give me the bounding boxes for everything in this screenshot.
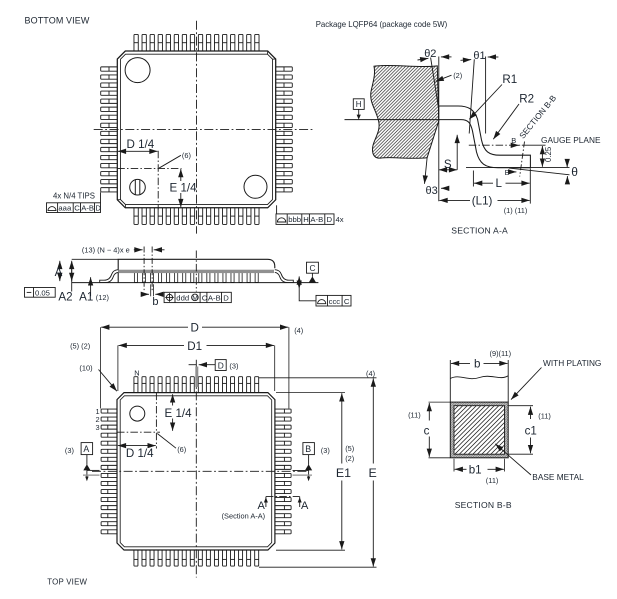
svg-text:A-B: A-B — [81, 204, 94, 213]
top view dash-dot horizontal at E/4 — [117, 431, 160, 433]
bottom view index circle top-left — [125, 58, 150, 83]
svg-text:(2): (2) — [453, 71, 462, 80]
svg-text:c1: c1 — [525, 424, 537, 437]
svg-text:c: c — [424, 424, 430, 437]
note (2) leader — [436, 75, 452, 81]
svg-text:θ1: θ1 — [473, 50, 485, 62]
svg-text:θ3: θ3 — [426, 185, 438, 197]
svg-text:WITH PLATING: WITH PLATING — [543, 358, 601, 368]
foot angle theta line — [509, 168, 570, 175]
top view dimension D — [101, 326, 188, 328]
dimension b with extension lines — [150, 284, 152, 296]
svg-text:A: A — [301, 500, 309, 512]
svg-text:A: A — [83, 444, 89, 454]
section B-B dimension b — [451, 362, 470, 364]
svg-text:ddd: ddd — [176, 293, 189, 302]
svg-text:GAUGE PLANE: GAUGE PLANE — [541, 135, 601, 145]
svg-text:SECTION B-B: SECTION B-B — [455, 500, 512, 510]
svg-text:A1: A1 — [79, 290, 93, 303]
section A-A seating plane H line — [345, 119, 439, 121]
dimension A2 — [71, 261, 73, 292]
svg-text:S: S — [444, 158, 452, 171]
svg-text:(Section A-A): (Section A-A) — [222, 512, 266, 521]
dimension L — [472, 171, 474, 187]
top view pin-1 circle — [130, 406, 145, 421]
section B-B lead shank sides — [449, 360, 451, 402]
svg-text:b: b — [474, 358, 480, 371]
svg-text:(9)(11): (9)(11) — [490, 349, 512, 358]
svg-text:(10): (10) — [79, 364, 92, 373]
top view centerline horizontal — [92, 470, 308, 472]
gauge plane dash-dot line — [469, 144, 522, 146]
svg-text:R1: R1 — [502, 73, 517, 86]
svg-text:D: D — [223, 293, 229, 302]
svg-text:(13) (N − 4)x e: (13) (N − 4)x e — [82, 246, 130, 255]
dimension A — [59, 261, 61, 267]
svg-text:E1: E1 — [336, 466, 351, 480]
svg-text:(11): (11) — [538, 412, 551, 421]
svg-text:(2): (2) — [345, 454, 354, 463]
bottom view centerline vertical — [196, 21, 198, 234]
svg-text:B: B — [511, 136, 516, 145]
datum D symbol with arrow — [189, 360, 227, 371]
svg-text:C: C — [74, 204, 80, 213]
bottom view pin row, right side — [275, 67, 292, 192]
section A-A theta1 lead flank line — [469, 59, 474, 133]
side view left lead bend — [100, 270, 119, 283]
section B-B break (wavy) line — [450, 376, 508, 379]
datum H symbol — [353, 99, 364, 120]
bottom view centerline horizontal — [94, 128, 314, 130]
svg-text:D 1/4: D 1/4 — [127, 138, 155, 151]
dimension 0.25 (gauge to seating) — [541, 146, 543, 167]
seating plane extension line right — [466, 167, 570, 169]
svg-text:aaa: aaa — [58, 204, 72, 213]
svg-text:B: B — [505, 168, 510, 177]
svg-text:(3): (3) — [321, 446, 330, 455]
svg-text:b: b — [152, 296, 158, 308]
theta angle arrows and label — [566, 159, 568, 167]
svg-text:D: D — [95, 204, 101, 213]
svg-text:L: L — [496, 177, 503, 190]
svg-text:0.25: 0.25 — [544, 146, 553, 162]
side view pitch e dash-dot lines — [143, 247, 145, 292]
bottom view corner facet lines — [117, 51, 275, 208]
top view dash-dot vertical at D/4 — [155, 393, 157, 449]
svg-text:SECTION A-A: SECTION A-A — [451, 226, 508, 236]
svg-text:H: H — [356, 100, 362, 109]
svg-text:E: E — [369, 466, 377, 480]
dimension S — [456, 135, 458, 170]
svg-text:(L1): (L1) — [472, 194, 493, 207]
ccc tolerance connector with arrows — [298, 276, 300, 283]
svg-text:D: D — [218, 360, 224, 370]
bottom view pin row, left side — [101, 67, 118, 192]
top view dimension E 1/4 — [172, 394, 174, 405]
svg-text:b1: b1 — [469, 463, 482, 476]
section A-A hatched package body — [371, 65, 439, 158]
side view body outline — [118, 259, 275, 282]
svg-text:θ: θ — [571, 165, 578, 179]
top view dimension D1 — [119, 344, 185, 346]
section B-B dimension c1 — [530, 407, 532, 419]
dimension A1 — [90, 277, 92, 296]
top view note (6) leader — [157, 434, 176, 449]
bottom view index circle bottom-right — [244, 175, 267, 198]
dimension (L1) — [439, 199, 470, 201]
svg-text:4x N/4 TIPS: 4x N/4 TIPS — [53, 192, 95, 201]
centerline gray bar below datum D — [195, 367, 198, 388]
bottom view pin row, bottom side — [134, 207, 259, 224]
svg-text:A: A — [258, 500, 266, 512]
svg-text:C: C — [202, 293, 208, 302]
section A-A theta2 reference vertical line — [438, 57, 440, 202]
section B-B cutting line through lead — [520, 142, 525, 177]
svg-text:(4): (4) — [294, 326, 303, 335]
svg-text:A-B: A-B — [310, 215, 323, 224]
bottom view package body inner bevel line — [121, 54, 273, 204]
section B-B plating layer (dense hatch) — [450, 402, 508, 458]
bottom view feature control frame aaa — [47, 192, 102, 212]
svg-text:N: N — [134, 369, 139, 378]
datum C symbol — [307, 262, 319, 282]
svg-text:BASE METAL: BASE METAL — [532, 472, 584, 482]
svg-text:(5) (2): (5) (2) — [70, 341, 90, 350]
bottom view package body outline (outer, chamfered) — [117, 51, 275, 208]
bottom view pin row, top side — [134, 34, 259, 51]
bottom view dash-dot line vertical at D/4 — [157, 151, 159, 210]
top view package body inner bevel line — [120, 396, 272, 547]
svg-text:0.05: 0.05 — [35, 288, 50, 297]
svg-text:(3): (3) — [65, 446, 74, 455]
svg-text:A2: A2 — [58, 290, 72, 303]
top view pin row, right side — [275, 409, 291, 534]
bottom view dash-dot line horizontal at E/4 — [117, 167, 181, 169]
svg-text:(5): (5) — [345, 444, 354, 453]
top view dimension E — [372, 378, 374, 463]
svg-text:(1) (11): (1) (11) — [504, 206, 528, 215]
bottom view pin-1 marker circle with chords — [130, 179, 146, 195]
svg-text:(6): (6) — [182, 151, 191, 160]
section B-B base metal (hatched) — [454, 406, 505, 455]
svg-text:(6): (6) — [177, 445, 186, 454]
svg-text:A-B: A-B — [208, 293, 221, 302]
section A-A cutting plane in top view — [266, 496, 300, 498]
side view lead row (16 leads) — [134, 272, 258, 283]
bottom view note (6) leader — [159, 155, 181, 168]
svg-text:D: D — [327, 215, 333, 224]
top view centerline vertical — [195, 360, 197, 578]
svg-text:H: H — [303, 215, 309, 224]
bottom view dimension D 1/4 — [118, 150, 158, 152]
svg-text:(4): (4) — [366, 369, 375, 378]
svg-text:C: C — [310, 263, 316, 273]
bottom view feature control frame bbb — [276, 205, 344, 224]
svg-text:BOTTOM VIEW: BOTTOM VIEW — [25, 15, 90, 25]
theta2 angle arrows and label — [418, 58, 429, 60]
theta3 body draft line extension with arrow — [425, 158, 428, 184]
svg-text:(11): (11) — [408, 411, 421, 420]
top view dimension D 1/4 — [118, 445, 156, 447]
bottom view dimension E 1/4 — [180, 169, 182, 181]
side view centerline — [195, 251, 197, 292]
section B-B dimension b1 — [453, 459, 455, 472]
side view top extension line and body top — [72, 258, 119, 260]
svg-text:(3): (3) — [229, 362, 238, 371]
svg-text:D: D — [191, 321, 199, 334]
svg-text:E 1/4: E 1/4 — [165, 407, 193, 420]
svg-text:bbb: bbb — [288, 215, 301, 224]
svg-text:θ2: θ2 — [424, 48, 436, 60]
svg-text:C: C — [344, 297, 350, 306]
svg-text:Package LQFP64 (package code 5: Package LQFP64 (package code 5W) — [316, 19, 448, 29]
svg-text:B: B — [305, 444, 311, 454]
section A-A theta1 reference vertical line — [485, 57, 487, 134]
svg-text:ccc: ccc — [329, 297, 341, 306]
section B-B dimension c — [428, 403, 430, 421]
side view right lead bend — [275, 270, 294, 283]
section A-A lead (gull wing) — [439, 106, 531, 168]
svg-text:4x: 4x — [336, 215, 344, 224]
datum B symbol right — [303, 443, 315, 482]
top view package body outline (outer) — [117, 393, 275, 550]
feature control frame ddd — [164, 292, 231, 302]
flatness tolerance box 0.05 — [25, 288, 56, 298]
svg-text:D 1/4: D 1/4 — [126, 447, 154, 460]
svg-text:(12): (12) — [96, 293, 109, 302]
feature control frame ccc — [316, 295, 351, 306]
svg-text:(11): (11) — [486, 476, 499, 485]
svg-text:TOP VIEW: TOP VIEW — [47, 577, 87, 586]
side view lead frame band (gray) — [119, 270, 274, 273]
top view pin row, bottom side — [134, 550, 259, 566]
svg-text:R2: R2 — [519, 93, 534, 106]
top view pin row, top side — [134, 377, 259, 393]
svg-text:D1: D1 — [187, 340, 202, 353]
svg-text:3: 3 — [96, 423, 100, 432]
svg-text:A: A — [55, 266, 63, 279]
svg-text:M: M — [192, 295, 198, 302]
svg-text:E 1/4: E 1/4 — [170, 182, 198, 195]
theta1 angle arrows and label — [461, 59, 472, 62]
top view pin row, left side — [101, 409, 117, 534]
side view seating plane line — [72, 282, 319, 284]
section A-A theta2 body draft line extension — [431, 58, 439, 107]
